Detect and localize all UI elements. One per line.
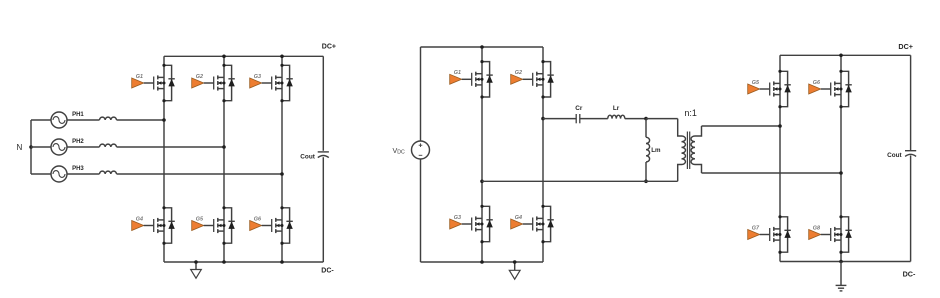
transistor G5 (MOSFET) [760,81,782,96]
node leg3 top rail junction [280,55,284,59]
label G4 [136,216,143,222]
inductor Lr [608,115,625,118]
wire Lr to node A [625,118,646,120]
wire right positive rail [910,55,912,150]
gate driver buffer for G5 [748,84,760,94]
body diode of G2 [541,60,553,99]
wire inductor PH1 to leg [117,119,165,121]
transistor G6 (MOSFET) [821,81,843,96]
svg-text:Cout: Cout [300,154,315,161]
label N [17,143,23,152]
gate driver buffer for G4 [511,219,523,229]
body diode of G1 [162,64,174,103]
label G1 [454,70,461,76]
svg-text:G2: G2 [196,74,203,80]
gate driver buffer for G5 [192,221,204,231]
label G4 [515,215,522,221]
node tank bottom at leg1 [480,180,484,184]
svg-text:G4: G4 [515,215,522,221]
node leg2 top rail junction [222,55,226,59]
wire secondary bottom elbow [695,165,702,174]
body diode of G2 [222,64,234,103]
earth ground (right bridge) [836,262,847,291]
gate driver buffer for G2 [511,74,523,84]
wire leg 2 of right bridge [840,55,842,261]
svg-text:n:1: n:1 [684,108,697,118]
inductor phase 1 [100,117,117,120]
wire leg 1 of middle bridge [481,47,483,262]
capacitor Cout (left) [318,152,329,158]
wire secondary bottom to right leg2 [702,172,842,174]
wire Cr to Lr [580,118,608,120]
wire inductor PH2 to leg [117,146,225,148]
label G6 [813,80,821,86]
node middle leg1 bottom junction [480,260,484,264]
svg-text:Cout: Cout [887,152,902,159]
wire leg 2 of left bridge [223,56,225,262]
wire VDC rail lower [420,159,422,262]
wire secondary top to right leg1 [702,125,781,127]
body diode of G6 [280,206,292,245]
gate driver buffer for G3 [450,219,462,229]
label G5 [752,80,760,86]
label DC+ (left) [322,43,336,50]
wire neutral bus [30,120,32,174]
capacitor Cout (right) [905,151,916,157]
transistor G4 (MOSFET) [144,218,166,233]
wire left DC+ top rail [164,55,323,57]
gate driver buffer for G6 [250,221,262,231]
gate driver buffer for G6 [809,84,821,94]
transistor G6 (MOSFET) [262,218,284,233]
inductor phase 2 [100,144,117,147]
wire neutral to source PH2 [31,146,51,148]
svg-text:G6: G6 [813,80,821,86]
wire source PH1 to inductor [67,119,100,121]
node leg3 bottom rail junction [280,260,284,264]
svg-text:Cr: Cr [575,105,583,112]
transistor G8 (MOSFET) [821,227,843,242]
svg-text:G3: G3 [254,74,261,80]
svg-text:DC-: DC- [903,270,916,279]
wire source PH2 to inductor [67,146,100,148]
body diode of G3 [480,205,492,244]
wire left positive rail right side [322,56,324,151]
node ground junction left [194,260,198,264]
svg-text:G5: G5 [752,80,760,86]
wire transformer primary top elbow [678,119,682,136]
AC source PH3 [51,166,67,182]
node B (Lm bottom junction) [644,180,648,184]
label Cout (left) [300,154,315,161]
label DC- (right) [903,270,916,279]
transformer T1 primary winding [682,136,686,164]
transistor G5 (MOSFET) [204,218,226,233]
wire leg 2 of middle bridge [542,47,544,262]
wire inductor PH3 to leg [117,173,283,175]
label DC- (left) [321,267,334,274]
body diode of G5 [778,70,790,109]
label DC+ (right) [898,42,913,51]
label G3 [454,215,461,221]
svg-text:G5: G5 [196,216,204,222]
wire transformer primary bottom elbow [678,165,682,182]
node ground junction middle [513,260,517,264]
gate driver buffer for G7 [748,230,760,240]
wire leg2 to Cr [543,118,576,120]
svg-text:G1: G1 [136,74,143,80]
wire node A to transformer top [646,118,678,120]
voltage source VDC [412,141,430,159]
wire leg 1 of right bridge [779,55,781,261]
node leg2 bottom rail junction [222,260,226,264]
label PH3 [72,166,84,172]
transistor G1 (MOSFET) [462,72,484,87]
node N junction [29,145,33,149]
body diode of G7 [778,215,790,254]
svg-text:DC-: DC- [321,267,334,274]
body diode of G4 [162,206,174,245]
label G3 [254,74,261,80]
svg-text:PH1: PH1 [72,112,84,118]
label G6 [254,216,262,222]
transistor G2 (MOSFET) [204,75,226,90]
label Cout (right) [887,152,902,159]
gate driver buffer for G1 [450,74,462,84]
node secondary bottom junction [839,171,843,175]
label G8 [813,225,820,231]
ground (left bridge) [191,262,202,278]
node middle leg1 top junction [480,45,484,49]
svg-text:G3: G3 [454,215,461,221]
label Lr [613,105,620,112]
node right leg2 bottom junction [839,260,843,264]
svg-text:Lr: Lr [613,105,620,112]
wire leg 1 of left bridge [163,56,165,262]
body diode of G8 [839,215,851,254]
AC source PH2 [51,139,67,155]
wire left negative rail right side [322,157,324,262]
svg-text:Lm: Lm [651,147,661,154]
node PH1 leg junction [162,118,166,122]
svg-text:PH3: PH3 [72,166,84,172]
node PH3 leg junction [280,172,284,176]
transistor G7 (MOSFET) [760,227,782,242]
svg-text:DC+: DC+ [898,42,913,51]
ground (middle bridge) [509,262,520,279]
transistor G4 (MOSFET) [523,216,545,231]
transformer T1 core [687,132,689,170]
body diode of G6 [839,70,851,109]
wire left DC- bottom rail [164,261,323,263]
body diode of G5 [222,206,234,245]
node A (tank/Lm junction) [644,117,648,121]
wire VDC rail upper [420,47,422,141]
transformer T1 secondary winding [691,136,695,164]
wire right bottom rail [780,261,911,263]
wire right top rail [780,54,911,56]
inductor Lm [646,137,650,162]
label Cr [575,105,583,112]
transistor G2 (MOSFET) [523,72,545,87]
svg-text:G7: G7 [752,225,760,231]
label G1 [136,74,143,80]
svg-text:G1: G1 [454,70,461,76]
svg-text:G4: G4 [136,216,143,222]
node PH2 leg junction [222,145,226,149]
transistor G3 (MOSFET) [462,216,484,231]
wire neutral to source PH1 [31,119,51,121]
gate driver buffer for G1 [132,78,144,88]
body diode of G3 [280,64,292,103]
gate driver buffer for G8 [809,230,821,240]
wire middle top rail [421,46,544,48]
wire leg 3 of left bridge [281,56,283,262]
svg-text:VDC: VDC [393,146,406,156]
svg-text:G6: G6 [254,216,262,222]
wire source PH3 to inductor [67,173,100,175]
node tank top at leg2 [541,117,545,121]
wire node A down to Lm [645,119,647,138]
wire right negative rail [910,155,912,261]
svg-text:G8: G8 [813,225,820,231]
inductor phase 3 [100,171,117,174]
label G2 [196,74,203,80]
transistor G1 (MOSFET) [144,75,166,90]
node secondary top junction [778,124,782,128]
label PH1 [72,112,84,118]
capacitor Cr [576,114,580,123]
label G5 [196,216,204,222]
label PH2 [72,139,84,145]
AC source PH1 [51,112,67,128]
svg-text:N: N [17,143,23,152]
node right leg2 top junction [839,54,843,58]
svg-text:PH2: PH2 [72,139,84,145]
label G2 [515,70,522,76]
gate driver buffer for G3 [250,78,262,88]
svg-text:DC+: DC+ [322,43,336,50]
wire neutral to source PH3 [31,173,51,175]
wire leg1 to transformer bottom [482,180,678,182]
transistor G3 (MOSFET) [262,75,284,90]
svg-text:G2: G2 [515,70,522,76]
wire middle bottom rail [421,261,544,263]
gate driver buffer for G2 [192,78,204,88]
body diode of G4 [541,205,553,244]
label G7 [752,225,760,231]
label n:1 [684,108,697,118]
wire Lm to bottom tank node [645,162,647,181]
wire secondary top elbow [695,126,702,136]
label VDC [393,146,406,156]
label Lm [651,147,661,154]
body diode of G1 [480,60,492,99]
gate driver buffer for G4 [132,221,144,231]
